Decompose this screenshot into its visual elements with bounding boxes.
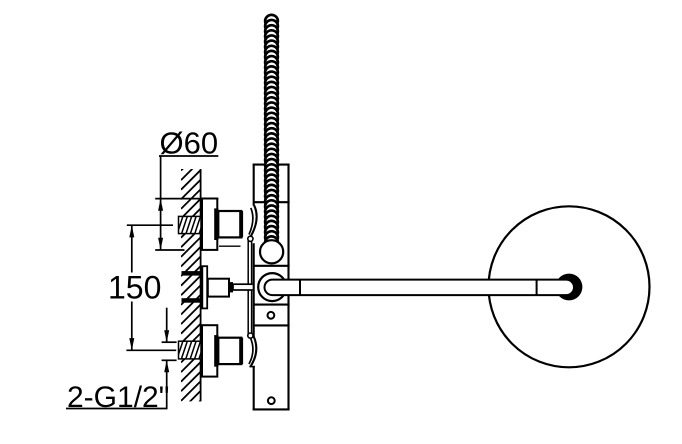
body divider under pivot [254, 304, 290, 306]
150 top extension line [127, 224, 173, 226]
svg-text:150: 150 [108, 269, 161, 305]
body bottom edge [253, 408, 290, 410]
wall section hatching [181, 150, 201, 420]
upper inlet bulge housing outer arc [251, 206, 257, 237]
body left edge lower segment [253, 367, 255, 410]
dimension 150 [126, 225, 176, 350]
dimension Ø60 [155, 156, 218, 250]
arm joint line at head [536, 280, 538, 296]
body left edge upper segment [253, 165, 255, 206]
leader lower segment [166, 360, 168, 408]
body left edge middle segment [253, 243, 255, 336]
upper G1/2 threaded pipe in wall [173, 216, 205, 233]
svg-text:Ø60: Ø60 [160, 126, 219, 161]
svg-text:2-G1/2": 2-G1/2" [67, 381, 169, 414]
stem bar to body [233, 284, 255, 290]
2-G1/2 underline [66, 408, 168, 410]
150 dim line upper part [131, 225, 133, 272]
middle stem [208, 279, 229, 297]
middle mounting studs (black) [182, 271, 203, 276]
leader arrow up [164, 360, 169, 372]
neck black collar [239, 211, 243, 237]
body divider lower [254, 324, 290, 326]
middle escutcheon plate [202, 266, 207, 308]
150 arrow up [129, 225, 134, 237]
back plate between connectors [248, 240, 251, 337]
screw hole lower [268, 397, 275, 404]
valve body column fill [253, 164, 290, 411]
lower bulge bottom lip [249, 366, 255, 368]
shower arm [265, 280, 575, 296]
wall flange escutcheon [202, 325, 217, 376]
shower head disc [489, 206, 650, 367]
flexible shower hose (coiled) [264, 14, 279, 255]
Ø60 bottom extension line [155, 249, 184, 251]
shower head ball joint (black) [556, 274, 583, 301]
body divider under hose ball [254, 265, 290, 267]
stem black coupling [229, 282, 233, 292]
lower inlet bulge housing outer arc [251, 336, 257, 366]
neck black collar [239, 338, 243, 364]
arm pivot boss [258, 273, 286, 301]
flange thick edge [214, 335, 218, 367]
thread tick upper [162, 341, 177, 343]
150 arrow down [129, 338, 134, 350]
body right edge [287, 165, 289, 410]
150 dim line lower part [131, 302, 133, 351]
thread tick lower [162, 359, 177, 361]
Ø60 underline [159, 155, 218, 157]
wall flange escutcheon [202, 199, 217, 250]
leader arrow down [164, 330, 169, 342]
Ø60 arrow up [158, 199, 163, 211]
connector neck nut [218, 211, 241, 237]
connector neck nut [218, 338, 241, 364]
body divider under top bracket [254, 201, 290, 203]
screw hole upper [268, 312, 275, 319]
arm joint line at body [299, 280, 301, 296]
lower G1/2 threaded pipe in wall [173, 341, 205, 359]
flange thick edge [214, 208, 218, 240]
Ø60 arrow down [158, 238, 163, 250]
lower inlet bulge housing inner arc [249, 339, 253, 364]
wall surface line [200, 169, 202, 401]
lower bulge end ball [248, 333, 253, 338]
upper inlet bulge housing inner arc [249, 208, 253, 235]
leader upper segment [166, 308, 168, 343]
dimension 2-G1/2" leader [66, 308, 177, 409]
body top edge [253, 164, 290, 166]
150 bottom extension line [126, 349, 176, 351]
Ø60 top extension line [155, 198, 218, 200]
neck washer line [219, 245, 241, 247]
Ø60 dim line [160, 156, 162, 250]
upper bulge end ball [248, 236, 253, 241]
hose end ball [260, 240, 283, 263]
